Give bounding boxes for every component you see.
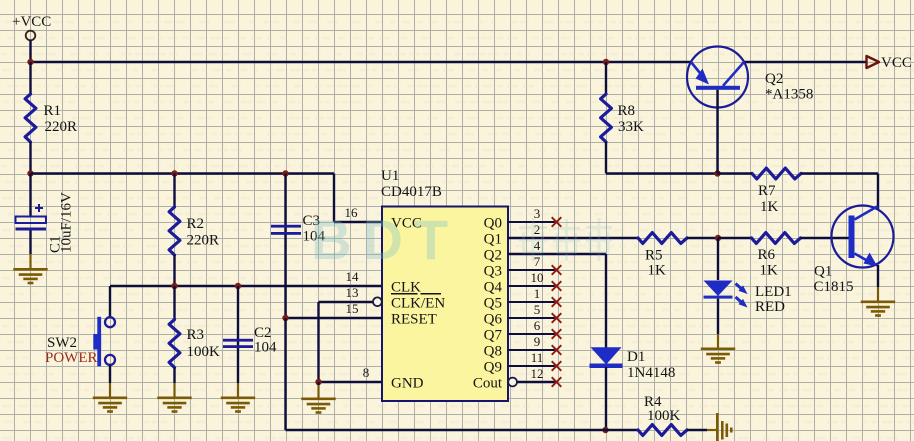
- svg-text:15: 15: [346, 301, 359, 316]
- pin VCC 16 wire: [334, 174, 382, 223]
- wire Q2 output down to D1: [605, 254, 607, 348]
- no-connect X pin 5: [552, 313, 562, 323]
- pin CLK/EN name: [391, 294, 445, 312]
- svg-text:Cout: Cout: [473, 376, 503, 392]
- pin Q0 3 stub: [508, 206, 556, 222]
- wire C3 line down to bottom rail: [284, 318, 286, 430]
- ground bottom rail (rotated): [717, 413, 731, 441]
- pin Q0 3 name: [484, 216, 502, 232]
- ground LED1: [701, 349, 735, 363]
- power port VCC arrow: [867, 55, 912, 71]
- svg-text:R7: R7: [758, 183, 776, 199]
- wire C1 top lead: [29, 174, 31, 218]
- svg-text:33K: 33K: [618, 119, 644, 135]
- pin Q2 4 name: [484, 248, 502, 264]
- svg-text:100K: 100K: [187, 344, 221, 360]
- IC U1 CD4017B body: [381, 168, 508, 401]
- wire R1 bottom: [29, 142, 31, 174]
- ground C2: [221, 398, 255, 412]
- wire R8 top: [605, 62, 607, 94]
- pin Cout 12 stub: [508, 366, 556, 386]
- wire R6 to Q1 base: [801, 237, 849, 239]
- no-connect X pin 6: [552, 329, 562, 339]
- wire SW2 bottom lead: [109, 365, 111, 397]
- node junction D1/bottom rail: [602, 427, 608, 433]
- pin CLK name: [391, 280, 421, 296]
- pin RESET name: [391, 312, 437, 328]
- node junction GND/pin13: [315, 379, 321, 385]
- svg-text:R6: R6: [758, 247, 776, 263]
- wire rail 3 CLK: [110, 285, 382, 287]
- pin Q3 7 name: [484, 264, 502, 280]
- ground SW2: [93, 398, 127, 412]
- svg-text:CLK/EN: CLK/EN: [391, 296, 445, 312]
- pin Q7 6 stub: [508, 318, 556, 334]
- wire Q1 emitter down: [877, 265, 879, 301]
- wire bottom rail left: [286, 429, 639, 431]
- svg-text:12: 12: [531, 366, 544, 381]
- svg-text:BDT: BDT: [311, 208, 459, 271]
- svg-text:Q6: Q6: [484, 312, 503, 328]
- svg-text:Q1: Q1: [484, 232, 502, 248]
- capacitor C1: [16, 192, 75, 253]
- power port +VCC: [12, 14, 51, 62]
- no-connect X pin 9: [552, 345, 562, 355]
- wire bottom rail right: [687, 429, 716, 431]
- wire C2 bottom lead: [237, 348, 239, 397]
- svg-text:7: 7: [534, 254, 541, 269]
- no-connect X pin 12: [552, 377, 562, 387]
- node junction R3 top: [171, 283, 177, 289]
- transistor Q2: [687, 47, 813, 108]
- node junction +VCC rail: [27, 59, 33, 65]
- svg-text:220R: 220R: [187, 233, 220, 249]
- pin Q4 10 name: [484, 280, 503, 296]
- wire junction to R6: [718, 237, 752, 239]
- wire rail 2: [31, 172, 335, 174]
- pin Q7 6 name: [484, 328, 503, 344]
- wire SW2 top lead: [109, 286, 111, 317]
- wire R5 to junction: [687, 237, 718, 239]
- svg-text:C1815: C1815: [814, 279, 854, 295]
- capacitor C2: [223, 325, 277, 356]
- svg-text:104: 104: [254, 340, 277, 356]
- svg-text:1: 1: [534, 286, 541, 301]
- node junction Q2 base: [714, 170, 720, 176]
- svg-text:*A1358: *A1358: [765, 87, 813, 103]
- svg-text:R8: R8: [618, 103, 636, 119]
- svg-text:U1: U1: [381, 168, 399, 184]
- svg-text:Q9: Q9: [484, 360, 502, 376]
- wire C2 top lead: [237, 286, 239, 348]
- pin RESET 15 wire: [286, 301, 383, 318]
- node junction LED1: [715, 235, 721, 241]
- resistor R5: [638, 233, 687, 279]
- svg-text:100K: 100K: [647, 408, 681, 424]
- pin Q5 1 stub: [508, 286, 556, 302]
- svg-text:Q4: Q4: [484, 280, 503, 296]
- pin Q4 10 stub: [508, 270, 556, 286]
- svg-text:SW2: SW2: [47, 335, 77, 351]
- svg-text:VCC: VCC: [881, 55, 912, 71]
- svg-text:1K: 1K: [648, 263, 667, 279]
- wire R7 right to Q1 collector: [801, 174, 878, 210]
- wire R3 top: [173, 286, 175, 320]
- node junction RESET/C3: [282, 315, 288, 321]
- node junction R1/C1: [27, 170, 33, 176]
- wire R3 bottom: [173, 368, 175, 397]
- resistor R7: [752, 168, 801, 215]
- resistor R4: [638, 394, 687, 435]
- resistor R6: [752, 233, 801, 279]
- svg-text:Q8: Q8: [484, 344, 502, 360]
- svg-text:CD4017B: CD4017B: [381, 184, 442, 200]
- svg-text:10: 10: [531, 270, 544, 285]
- resistor R2: [169, 207, 219, 255]
- wire C3 bottom to reset node: [284, 235, 286, 318]
- wire top rail right: [744, 61, 866, 63]
- svg-text:2: 2: [534, 222, 541, 237]
- wire R1 top: [29, 62, 31, 94]
- svg-text:D1: D1: [627, 349, 645, 365]
- switch SW2: [45, 317, 115, 367]
- node junction C2 top: [235, 283, 241, 289]
- wire LED1 bottom lead: [717, 299, 719, 348]
- resistor R1: [25, 94, 77, 142]
- svg-text:5: 5: [534, 302, 541, 317]
- wire LED1 top lead: [717, 238, 719, 280]
- pin Q5 1 name: [484, 296, 502, 312]
- no-connect X pin 10: [552, 281, 562, 291]
- svg-text:R3: R3: [187, 327, 205, 343]
- pin Q3 7 stub: [508, 254, 556, 270]
- pin Q9 11 stub: [508, 350, 556, 366]
- svg-text:8: 8: [363, 365, 370, 380]
- no-connect X pin 1: [552, 297, 562, 307]
- ground C1: [13, 269, 47, 283]
- svg-text:13: 13: [346, 285, 359, 300]
- ground Q1: [861, 302, 895, 316]
- svg-text:R5: R5: [645, 248, 663, 264]
- wire R2 top: [173, 174, 175, 208]
- svg-text:Q5: Q5: [484, 296, 502, 312]
- wire R7 left lead: [718, 172, 753, 174]
- wire pin13 down: [317, 302, 319, 382]
- svg-text:1N4148: 1N4148: [627, 365, 675, 381]
- svg-text:Q7: Q7: [484, 328, 503, 344]
- svg-text:R1: R1: [44, 103, 62, 119]
- pin Cout name: [473, 376, 503, 392]
- wire Q2 base down: [716, 90, 718, 174]
- pin Q8 9 stub: [508, 334, 556, 350]
- wire GND stub down: [317, 382, 319, 398]
- svg-text:14: 14: [346, 269, 360, 284]
- no-connect X pin 3: [552, 217, 562, 227]
- svg-text:10uF/16V: 10uF/16V: [59, 192, 75, 253]
- no-connect X pin 11: [552, 361, 562, 371]
- pin Q1 2 name: [484, 232, 502, 248]
- svg-text:11: 11: [531, 350, 544, 365]
- pin CLK/EN 13: [319, 285, 382, 306]
- capacitor C3: [271, 213, 326, 245]
- wire C1 bottom lead: [29, 231, 31, 269]
- svg-text:9: 9: [534, 334, 541, 349]
- node junction R2 top: [171, 170, 177, 176]
- svg-text:Q3: Q3: [484, 264, 502, 280]
- wire R8 bottom to node: [606, 142, 718, 174]
- svg-text:LED1: LED1: [755, 284, 792, 300]
- pin Q1 2 wire to R5: [508, 222, 638, 238]
- svg-text:GND: GND: [391, 376, 424, 392]
- svg-text:RED: RED: [755, 299, 785, 315]
- pin Q6 5 stub: [508, 302, 556, 318]
- pin CLK 14 number: [346, 269, 360, 284]
- node junction C3 top: [282, 170, 288, 176]
- svg-text:6: 6: [534, 318, 541, 333]
- pin VCC name: [391, 216, 422, 232]
- wire C3 top lead: [284, 174, 286, 236]
- wire D1 bottom: [605, 367, 607, 430]
- svg-text:Q0: Q0: [484, 216, 502, 232]
- no-connect X pin 7: [552, 265, 562, 275]
- svg-text:Q2: Q2: [765, 71, 783, 87]
- svg-text:1K: 1K: [760, 263, 779, 279]
- svg-text:+VCC: +VCC: [12, 14, 51, 30]
- pin Q2 4 wire: [508, 238, 606, 254]
- pin Q8 9 name: [484, 344, 502, 360]
- svg-text:Q2: Q2: [484, 248, 502, 264]
- pin GND 8 wire: [319, 365, 383, 382]
- pin Q9 11 name: [484, 360, 502, 376]
- LED LED1: [704, 281, 792, 316]
- svg-text:1K: 1K: [760, 199, 779, 215]
- svg-text:RESET: RESET: [391, 312, 437, 328]
- svg-text:Q1: Q1: [814, 264, 832, 280]
- pin Q6 5 name: [484, 312, 503, 328]
- ground R3: [157, 398, 191, 412]
- resistor R3: [169, 320, 220, 368]
- node junction R8 top: [603, 59, 609, 65]
- diode D1: [590, 347, 676, 381]
- transistor Q1: [814, 206, 894, 296]
- wire top rail left: [31, 61, 692, 63]
- svg-text:3: 3: [534, 206, 541, 221]
- ground U1: [301, 399, 335, 413]
- wire R2 bottom: [173, 255, 175, 286]
- svg-text:220R: 220R: [45, 119, 78, 135]
- pin GND name: [391, 376, 424, 392]
- resistor R8: [601, 94, 644, 142]
- svg-text:R2: R2: [187, 216, 205, 232]
- svg-text:POWER: POWER: [45, 350, 98, 366]
